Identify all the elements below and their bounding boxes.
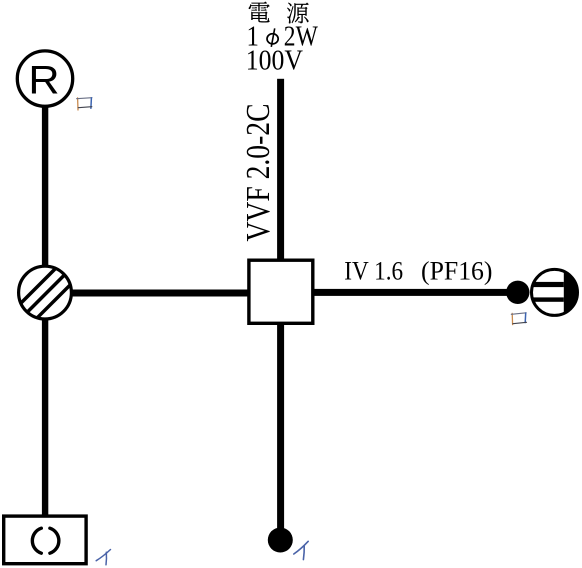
- label ロ (lamp): [77, 98, 92, 110]
- node: receptacle dot: [506, 281, 529, 304]
- svg-text:100V: 100V: [246, 45, 303, 77]
- wire: source drop to outlet box: [277, 79, 284, 260]
- wall receptacle symbol: [530, 267, 582, 318]
- ceiling rose () symbol: [32, 528, 59, 553]
- wire: outlet box down to switch イ: [277, 322, 284, 529]
- svg-text:(PF16): (PF16): [421, 256, 493, 286]
- outlet box: [249, 260, 313, 323]
- wire: joint box down to ceiling rose: [42, 318, 48, 516]
- ceiling rose box (angular): [4, 516, 86, 564]
- wire: outlet box to receptacle node: [313, 289, 509, 296]
- svg-text:IV 1.6: IV 1.6: [344, 256, 403, 286]
- source label 源: [287, 2, 309, 23]
- source label 電: [249, 1, 270, 22]
- wire: lamp to joint box: [42, 106, 48, 267]
- label ロ (receptacle): [511, 313, 526, 325]
- svg-text:VVF 2.0-2C: VVF 2.0-2C: [240, 104, 277, 242]
- node: switch イ dot: [268, 528, 293, 553]
- label イ (ceiling): [96, 550, 110, 565]
- lamp receptacle R: [17, 51, 72, 106]
- wire: outlet box to joint box: [71, 290, 249, 297]
- joint box (hatched circle): [19, 266, 72, 319]
- label イ (switch): [294, 541, 308, 559]
- svg-text:R: R: [28, 57, 59, 102]
